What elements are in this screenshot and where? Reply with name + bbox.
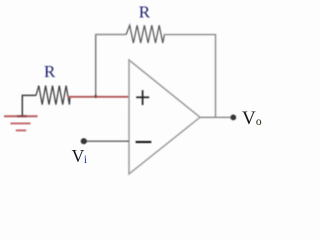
op-amp + input symbol: [136, 90, 149, 105]
svg-text:o: o: [256, 116, 262, 128]
wire feedback left vertical (top node to + input node): [95, 35, 97, 98]
wire output: [200, 116, 233, 118]
node junction feedback/+input: [95, 95, 97, 99]
node Vi terminal dot: [81, 138, 87, 144]
svg-text:R: R: [139, 3, 151, 22]
wire feedback right vertical (down to output node): [215, 34, 217, 118]
op-amp - input symbol: [136, 141, 152, 143]
svg-text:V: V: [72, 146, 85, 166]
wire red to + input: [68, 96, 130, 98]
op-amp U1 triangle: [129, 60, 200, 174]
label Vo: [242, 108, 262, 129]
wire feedback top left lead: [95, 34, 126, 36]
svg-text:R: R: [44, 62, 56, 81]
svg-text:V: V: [242, 108, 256, 129]
ground: [4, 116, 38, 130]
wire ground to input resistor: [22, 95, 36, 116]
node Vo terminal dot: [230, 115, 236, 121]
wire Vi to - input: [84, 140, 129, 142]
resistor R1 (feedback) zigzag: [126, 25, 164, 43]
resistor R2 (input) zigzag: [36, 86, 70, 105]
label Vi: [72, 146, 88, 166]
wire feedback top right lead: [164, 34, 215, 37]
